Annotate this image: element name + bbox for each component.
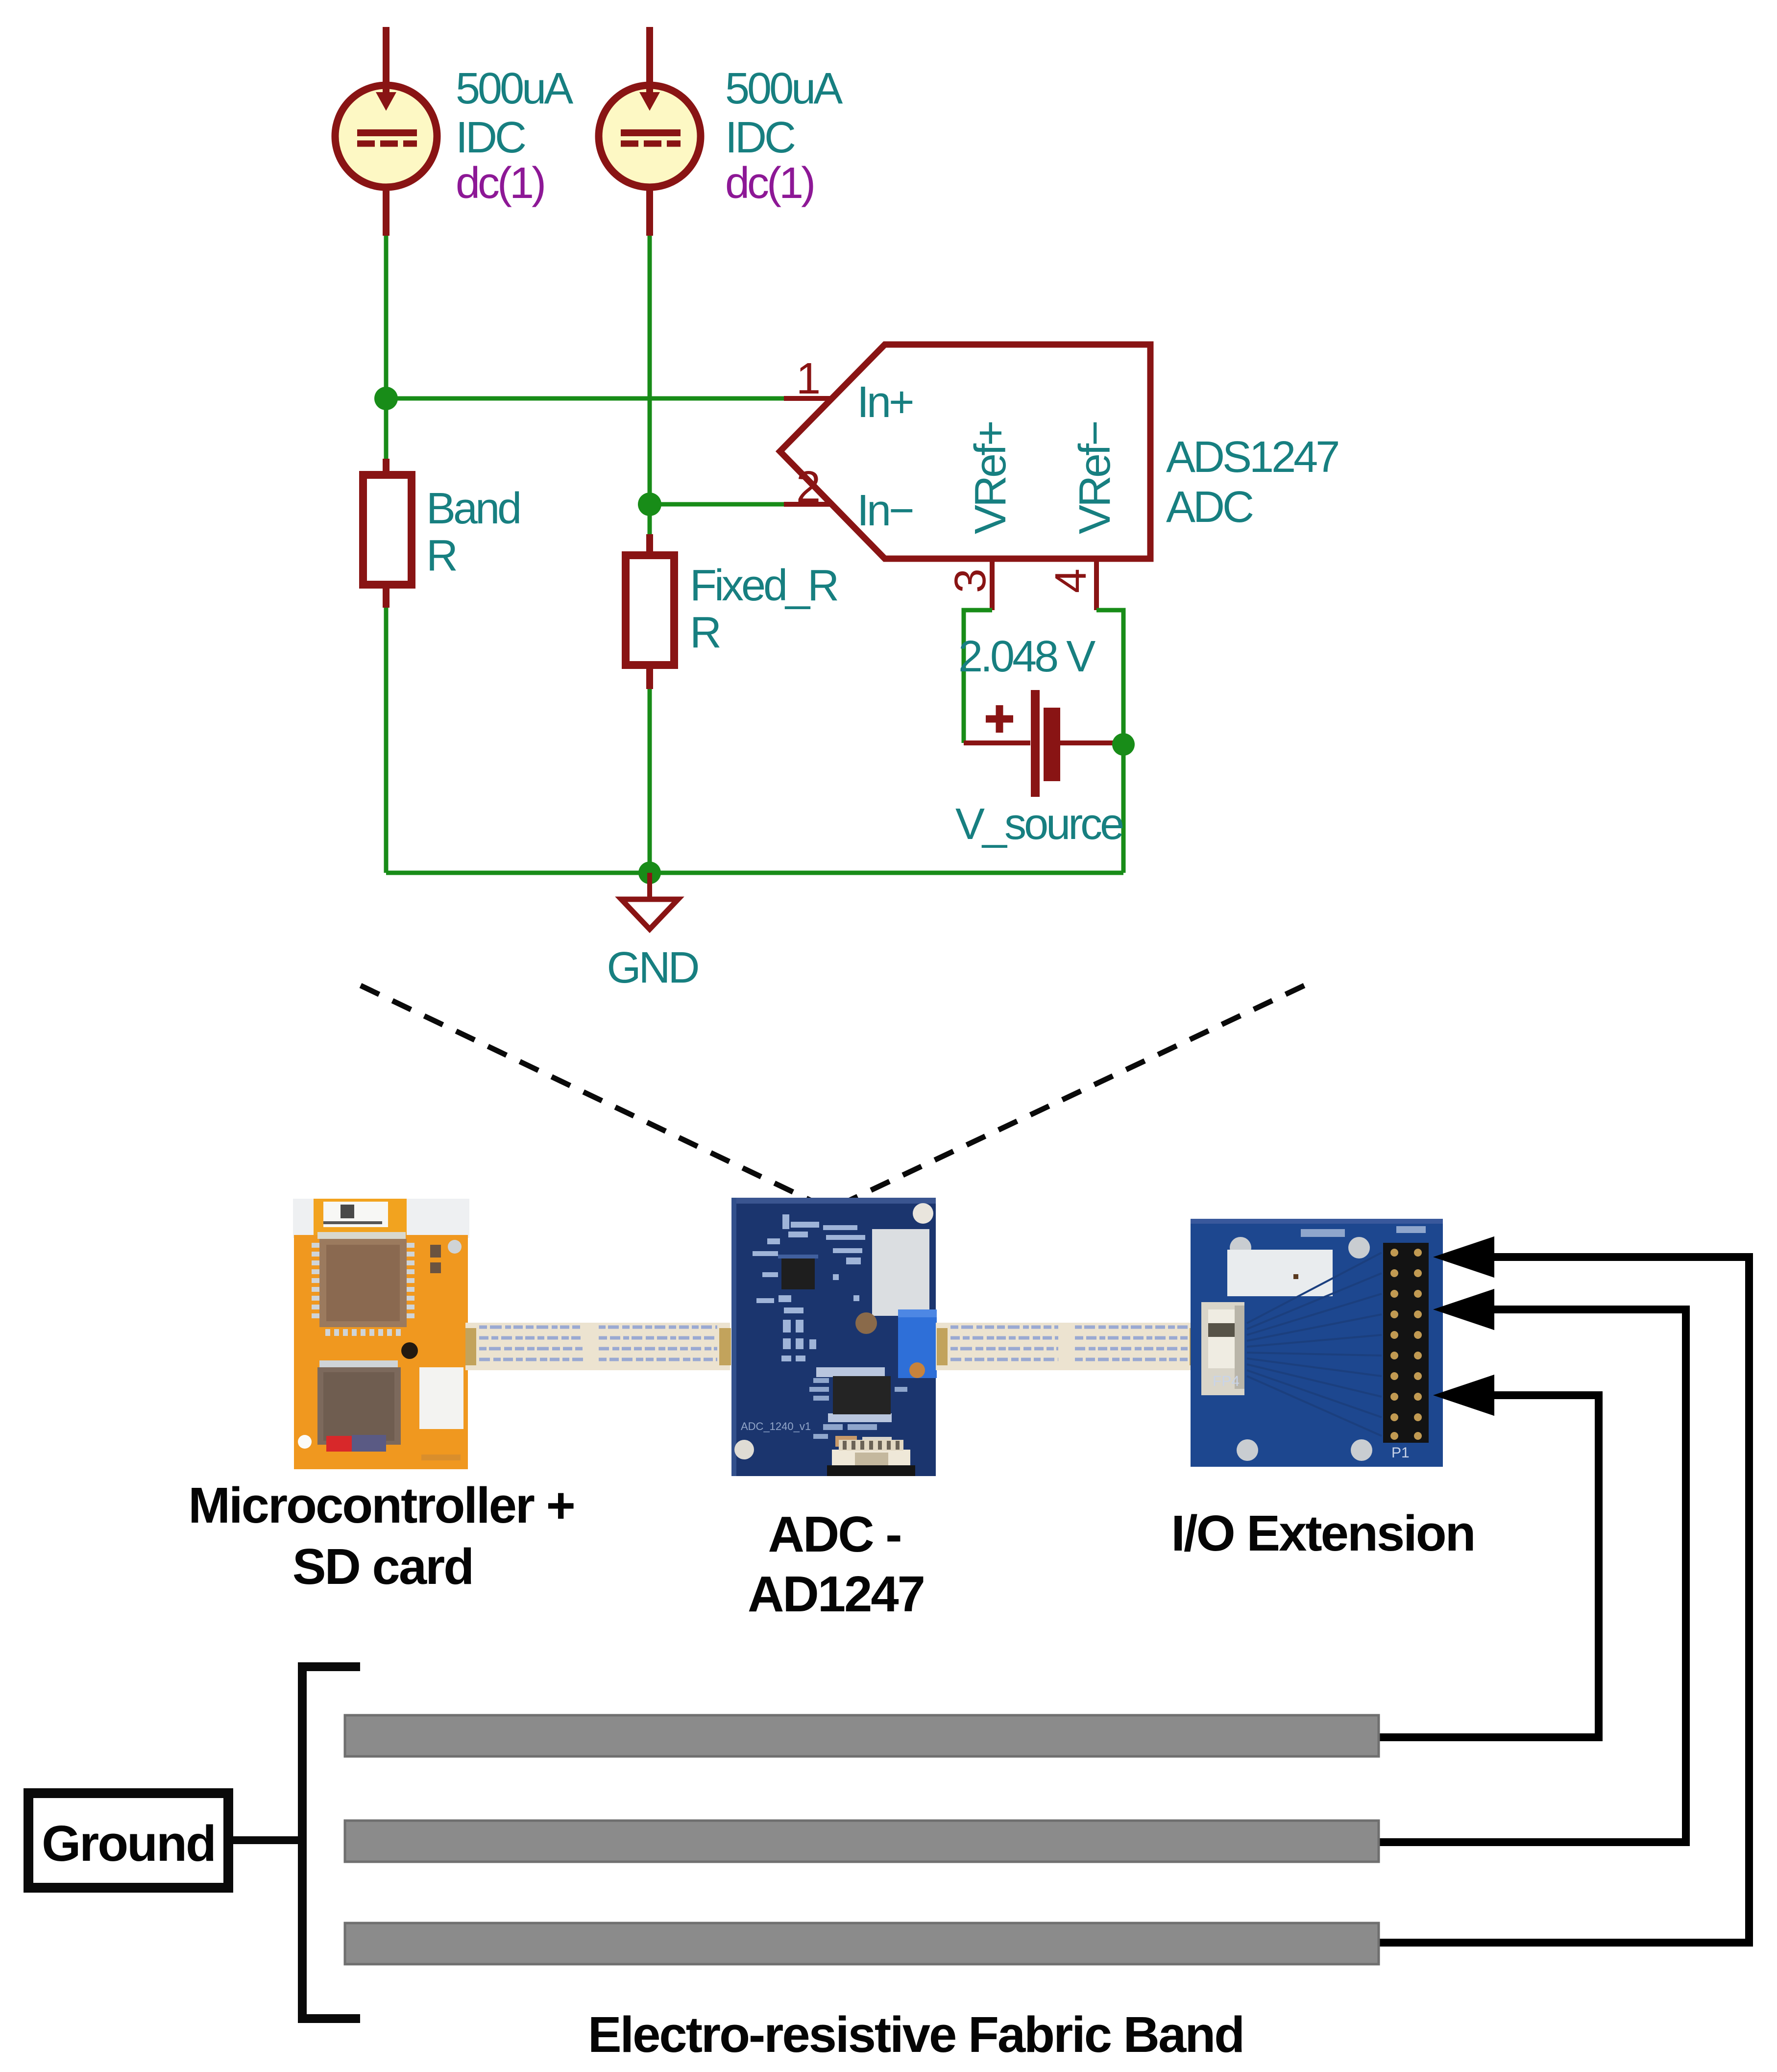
svg-text:2.048 V: 2.048 V — [958, 632, 1095, 681]
svg-text:Electro-resistive Fabric Band: Electro-resistive Fabric Band — [588, 2006, 1243, 2063]
wire: horizontal In- net — [650, 502, 784, 507]
svg-text:R: R — [690, 608, 720, 657]
svg-text:IDC: IDC — [456, 113, 525, 162]
pin 1 In+ — [784, 354, 831, 403]
arrow wire 2 (middle, to middle fabric band) — [1379, 1294, 1686, 1842]
svg-text:V_source: V_source — [955, 800, 1123, 849]
ADC board photo — [731, 1198, 937, 1476]
wire: pin4 to right rail — [1096, 610, 1123, 873]
I/O extension board photo — [1191, 1219, 1443, 1467]
svg-text:SD card: SD card — [292, 1538, 473, 1595]
svg-text:Band: Band — [426, 484, 519, 533]
current source I2 (500uA IDC dc(1)) — [599, 85, 701, 187]
resistor Band R — [363, 459, 412, 608]
wire: I1 top lead with arrow — [376, 27, 396, 111]
wire: green I2 down to Fixed_R — [648, 236, 652, 534]
svg-text:2: 2 — [796, 463, 819, 512]
op-amp U1 ADS1247 ADC body — [780, 345, 1150, 559]
svg-text:In−: In− — [857, 486, 913, 535]
pin 3 VRef+ — [946, 559, 995, 610]
svg-text:1: 1 — [796, 354, 819, 403]
fabric band 2 — [345, 1821, 1379, 1862]
ground symbol GND — [621, 873, 678, 929]
wire: I2 top lead with arrow — [639, 27, 660, 111]
node junction C (battery right) — [1112, 733, 1135, 756]
current source I1 (500uA IDC dc(1)) — [335, 85, 437, 187]
wire: bottom ground rail — [386, 871, 1123, 875]
svg-text:ADC -: ADC - — [768, 1506, 901, 1562]
svg-text:4: 4 — [1047, 569, 1095, 593]
microcontroller board photo — [293, 1199, 469, 1469]
svg-text:I/O Extension: I/O Extension — [1171, 1505, 1474, 1561]
svg-text:VRef−: VRef− — [1071, 422, 1120, 534]
node junction A (In+ net) — [374, 387, 398, 410]
caption: Microcontroller + SD card — [188, 1477, 574, 1595]
wire: horizontal In+ net — [386, 396, 784, 401]
svg-text:Ground: Ground — [42, 1815, 215, 1872]
svg-text:Microcontroller +: Microcontroller + — [188, 1477, 574, 1533]
wire: pin3 to battery + — [964, 610, 992, 743]
svg-text:500uA: 500uA — [725, 64, 843, 113]
dashed callout line left — [361, 986, 814, 1202]
svg-text:IDC: IDC — [725, 113, 795, 162]
svg-text:FP4: FP4 — [1213, 1373, 1240, 1389]
fan-out traces — [1247, 1253, 1382, 1436]
FPC connector left — [1201, 1302, 1244, 1395]
DIAGRAM — [1379, 1242, 1749, 1943]
pin header right — [1383, 1243, 1429, 1443]
ribbon cable right — [936, 1323, 1203, 1370]
wire: I1 bottom red stub — [383, 187, 389, 236]
wire: Fixed_R to bottom rail — [648, 689, 652, 873]
svg-text:R: R — [426, 531, 456, 580]
svg-text:GND: GND — [607, 943, 698, 992]
node junction B (In- net) — [638, 493, 661, 516]
resistor Fixed_R — [626, 534, 674, 689]
FPC connector bottom — [832, 1450, 910, 1469]
svg-text:Fixed_R: Fixed_R — [690, 561, 837, 610]
arrow wire 1 (top, to bottom fabric band) — [1379, 1242, 1749, 1943]
svg-text:VRef+: VRef+ — [966, 422, 1015, 534]
svg-text:ADC_1240_v1: ADC_1240_v1 — [741, 1420, 811, 1432]
svg-text:ADS1247: ADS1247 — [1166, 433, 1338, 482]
svg-text:P1: P1 — [1391, 1445, 1410, 1461]
ground bracket — [302, 1667, 360, 2019]
svg-text:3: 3 — [946, 570, 995, 593]
fabric band 3 — [345, 1923, 1379, 1964]
wire: I2 bottom red stub — [646, 187, 653, 236]
svg-text:ADC: ADC — [1166, 483, 1253, 532]
battery V_source 2.048 V — [964, 690, 1123, 797]
pin 4 VRef- — [1047, 559, 1096, 610]
svg-text:dc(1): dc(1) — [725, 159, 813, 208]
wire: Band R to bottom rail — [384, 608, 389, 873]
pin 2 In- — [784, 463, 834, 512]
caption: ADC - AD1247 — [748, 1506, 924, 1622]
Ground node box — [28, 1793, 228, 1888]
dashed callout line right — [846, 986, 1304, 1202]
wire: green I1 to Band R — [384, 236, 389, 461]
wire: ground box to bracket — [228, 1836, 303, 1844]
svg-text:dc(1): dc(1) — [456, 159, 544, 208]
svg-text:500uA: 500uA — [456, 64, 573, 113]
ribbon cable left — [465, 1323, 731, 1370]
svg-text:In+: In+ — [857, 378, 913, 427]
arrow wire 3 (bottom, to top fabric band) — [1379, 1380, 1599, 1737]
node junction D (GND) — [638, 862, 661, 884]
fabric band 1 — [345, 1715, 1379, 1756]
svg-text:AD1247: AD1247 — [748, 1566, 924, 1622]
